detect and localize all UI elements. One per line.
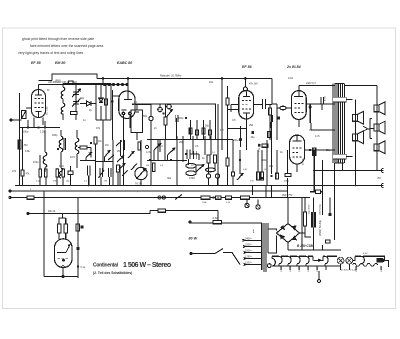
- wire eye resistor tops: [59, 214, 66, 239]
- DIN socket A pin: [246, 204, 249, 207]
- wire EL84b anode out: [305, 149, 335, 151]
- control box top: [132, 104, 216, 140]
- terminal bus AVC: [9, 190, 11, 192]
- connector circle A: [206, 174, 210, 178]
- af circle B: [167, 104, 172, 109]
- node EF86 rail: [245, 78, 247, 80]
- svg-text:0,04: 0,04: [59, 165, 64, 168]
- svg-text:EABC: EABC: [298, 265, 301, 271]
- wire tone line: [28, 211, 218, 214]
- wire EL84a anode out: [306, 104, 334, 123]
- wire switch bank verticals: [86, 140, 121, 186]
- resistor 0,3: [152, 163, 155, 172]
- component g-stopper: [269, 108, 272, 115]
- wire couple: [277, 107, 292, 109]
- IF top coil B: [61, 103, 65, 115]
- scatter labels texture: [12, 77, 331, 180]
- capacitor pair cb1: [88, 166, 91, 176]
- wire EL84a top: [298, 86, 300, 91]
- svg-text:0,1µ: 0,1µ: [36, 181, 41, 183]
- svg-text:Ratiodet. 10,7MHz: Ratiodet. 10,7MHz: [160, 74, 182, 78]
- wire cap feed: [78, 147, 91, 149]
- wire EF86 grid left: [228, 105, 247, 152]
- svg-text:40k 4k: 40k 4k: [48, 210, 56, 213]
- wire EABC80 anode to rail: [127, 79, 129, 92]
- voltage selector tap 125: [243, 258, 261, 260]
- terminal out1: [381, 168, 383, 172]
- trimmer circle above EF86: [243, 87, 247, 91]
- wire switch bank horizontals: [80, 157, 113, 162]
- svg-text:240V~: 240V~: [244, 238, 253, 241]
- wire right of box: [218, 79, 222, 186]
- terminal below psu: [318, 280, 321, 283]
- wire EF86 top to rail: [244, 79, 246, 88]
- svg-text:125V~: 125V~: [245, 256, 253, 259]
- wire transformer down legs: [310, 150, 377, 215]
- pot arrow mid2: [237, 174, 243, 181]
- wire lamps out: [353, 256, 362, 260]
- output transformer winding hatch: [333, 84, 340, 164]
- wire AM line ext: [103, 84, 128, 86]
- connector circle B: [215, 174, 219, 178]
- pilot lamp 2: [346, 257, 353, 264]
- transformer HV secondary bar: [267, 223, 269, 253]
- svg-text:4,7k: 4,7k: [315, 135, 320, 138]
- svg-text:prim: prim: [252, 229, 255, 233]
- node box sq1: [185, 117, 187, 119]
- terminal antenna input: [10, 119, 12, 121]
- heater diode arrow: [382, 259, 385, 262]
- tube EF85 cathode: [36, 112, 42, 118]
- wire EF85 pin leads: [28, 118, 45, 128]
- terminal tone: [27, 213, 29, 215]
- switch mid s7: [196, 165, 204, 173]
- node af sq: [162, 112, 164, 114]
- wire vertical v101: [100, 84, 102, 121]
- svg-text:25µ: 25µ: [326, 149, 331, 152]
- svg-text:0,3: 0,3: [159, 145, 163, 148]
- wire AF takeoff vertical: [102, 79, 104, 171]
- wire L2 leads: [44, 130, 46, 173]
- extra vertical x118: [118, 140, 125, 186]
- wire output terminals line1: [313, 170, 384, 172]
- primary winding bar: [261, 223, 263, 270]
- heater phase circle: [267, 264, 271, 268]
- svg-text:100p: 100p: [33, 161, 39, 164]
- volume pot arrow: [137, 169, 147, 179]
- extra small rect bs1: [117, 165, 120, 172]
- svg-text:(FM): (FM): [55, 79, 61, 83]
- resistor mid2: [138, 142, 141, 150]
- resistor mid r3: [276, 173, 279, 179]
- svg-text:250: 250: [249, 124, 254, 127]
- resistor 470 cathode: [313, 148, 316, 156]
- wire eye bottom tie: [44, 276, 78, 278]
- wire trimmer drops: [75, 84, 77, 121]
- capacitor row c3: [45, 169, 48, 177]
- capacitor pair mid: [187, 150, 196, 160]
- svg-text:EF 85: EF 85: [31, 61, 42, 65]
- af circle A tilde: [159, 109, 162, 110]
- IF transformer coil L3: [75, 138, 79, 154]
- bus B275: [10, 197, 305, 199]
- node mains: [190, 253, 192, 255]
- svg-text:180p: 180p: [52, 134, 58, 137]
- svg-text:1M: 1M: [98, 140, 101, 143]
- svg-text:Dr: Dr: [47, 89, 50, 92]
- wire antenna lead: [11, 119, 22, 121]
- svg-text:Continental: Continental: [93, 263, 119, 269]
- component row caps el84: [262, 144, 268, 147]
- resistor row c: [241, 196, 250, 199]
- tube EL84a cathode: [298, 120, 300, 128]
- antenna input transformer: [22, 111, 27, 119]
- svg-text:1M: 1M: [104, 181, 107, 183]
- svg-text:6,3V~: 6,3V~: [363, 253, 369, 255]
- tube EABC80 anode: [124, 91, 132, 100]
- heater winding w5: [325, 256, 337, 266]
- coupling capacitor right of EF86: [263, 99, 266, 109]
- resistor grid el84b: [268, 131, 271, 137]
- component box ra: [189, 128, 192, 134]
- terminal bus B275: [9, 196, 11, 198]
- wire output terminals line2: [308, 185, 384, 187]
- component el84 couple: [280, 106, 286, 110]
- tube EL84a envelope: [291, 91, 306, 120]
- capacitor 6800p: [80, 146, 87, 149]
- heater diode blob: [377, 258, 382, 262]
- speaker L2: [352, 131, 363, 144]
- svg-text:0,1: 0,1: [195, 145, 199, 148]
- wire mid drops2: [189, 159, 218, 186]
- wire rail jog: [39, 74, 98, 81]
- switch contact s1: [86, 153, 92, 158]
- capacitor 0,04u: [71, 112, 78, 115]
- wire mains line: [191, 253, 215, 255]
- svg-text:B 250 C350: B 250 C350: [297, 244, 314, 248]
- component box rc: [202, 128, 205, 134]
- wire box bottom: [147, 139, 233, 141]
- svg-text:EM 80: EM 80: [55, 61, 65, 65]
- left labels row: [30, 152, 267, 194]
- wire EABC80 left grid: [113, 90, 119, 140]
- wire EABC80 cathode drop: [123, 133, 125, 186]
- transformer tap box lower: [333, 154, 347, 159]
- tweeter arrow: [363, 126, 370, 131]
- capacitor row c2: [39, 169, 42, 177]
- wire vertical v96: [95, 84, 97, 121]
- tube EL84b envelope: [290, 135, 305, 164]
- IF transformer coil L1: [59, 136, 63, 152]
- svg-text:220V~: 220V~: [244, 244, 253, 247]
- scatter junction squares: [57, 142, 311, 179]
- svg-text:faint mirrored letters over th: faint mirrored letters over the scanned …: [30, 44, 103, 48]
- wire box verticals: [177, 118, 211, 140]
- wire HV to bridge: [268, 229, 277, 253]
- resistor PSU: [304, 212, 307, 226]
- resistor row 10k: [226, 196, 232, 199]
- resistor 1M band: [94, 137, 97, 144]
- node junction b: [38, 127, 40, 129]
- node ef86 sq: [251, 131, 254, 134]
- svg-text:180p: 180p: [23, 131, 29, 134]
- pot arrow af: [167, 110, 173, 118]
- bridge diode 1: [281, 226, 284, 229]
- right top rail: [299, 85, 335, 87]
- pilot lamp 1: [337, 257, 344, 264]
- wire grid return vertical: [19, 93, 21, 186]
- svg-text:100p: 100p: [178, 117, 184, 120]
- tube EABC80 envelope: [119, 91, 135, 119]
- svg-text:1M: 1M: [220, 129, 223, 132]
- electrolytic cap bars: [312, 212, 315, 228]
- switch contact s2: [105, 151, 111, 158]
- wire L1 leads: [60, 130, 62, 168]
- tube EABC80 diode leads: [124, 115, 131, 133]
- trimmer capacitor T2: [72, 99, 81, 107]
- node v222: [221, 78, 223, 80]
- svg-text:4700: 4700: [325, 95, 327, 101]
- component rm1: [207, 155, 210, 163]
- resistor 1,5M: [18, 140, 21, 149]
- node psu junction: [329, 213, 332, 216]
- svg-text:47p: 47p: [96, 127, 101, 130]
- component box rb: [196, 130, 199, 135]
- wire v218 drop: [217, 211, 219, 223]
- diode box: [131, 110, 143, 133]
- svg-text:16,5: 16,5: [70, 156, 75, 159]
- tube EF86 anode: [243, 92, 250, 97]
- heater end staircase: [376, 256, 389, 267]
- svg-text:30p: 30p: [80, 97, 85, 100]
- wire bottom connect: [96, 119, 111, 121]
- bridge diode 2: [293, 226, 296, 229]
- output transformer core: [342, 84, 344, 164]
- wire eye drop 2: [77, 198, 79, 279]
- output transformer top tie: [335, 83, 345, 85]
- svg-text:EF 86: EF 86: [242, 65, 253, 69]
- speaker R2: [374, 121, 385, 134]
- wire eye drop 1: [43, 191, 45, 277]
- node row sq: [213, 197, 215, 199]
- svg-text:80 W: 80 W: [189, 237, 198, 241]
- svg-text:EC C85: EC C85: [46, 106, 49, 115]
- svg-text:EM80: EM80: [290, 265, 292, 271]
- mains switch: [215, 249, 240, 265]
- svg-text:0,02: 0,02: [288, 77, 293, 80]
- resistor mid r1: [257, 172, 260, 180]
- node junction c: [44, 127, 46, 129]
- voltage selector tap 220: [243, 246, 262, 248]
- transformer core: [264, 223, 266, 272]
- wire fuse line: [190, 222, 262, 224]
- extra switch arrows right: [108, 141, 128, 177]
- svg-text:50µ 350V: 50µ 350V: [309, 204, 311, 214]
- bridge diode 4: [293, 237, 297, 240]
- svg-text:(350V) 50+50µ: (350V) 50+50µ: [319, 219, 322, 236]
- wire diode row: [80, 103, 96, 105]
- tube EL84b cathode: [296, 164, 298, 172]
- component tone series: [158, 209, 166, 212]
- node eye center: [63, 259, 65, 261]
- wire secondary to speakers lower: [346, 156, 352, 158]
- wire top connect: [63, 83, 111, 85]
- svg-text:150V~: 150V~: [245, 250, 253, 253]
- resistor mid r2: [261, 172, 264, 180]
- heater winding w2: [288, 256, 297, 266]
- tube EF86 envelope: [239, 91, 254, 120]
- pot arrow p2: [108, 168, 111, 177]
- wire mid horizontals: [147, 140, 199, 161]
- svg-text:B-TON: B-TON: [303, 158, 305, 165]
- bus ground main: [15, 185, 308, 187]
- wire EF85 grid to input transformer: [26, 107, 32, 109]
- svg-text:1M: 1M: [105, 144, 108, 147]
- bus junction dots: [22, 185, 356, 212]
- capacitor on v106: [105, 99, 108, 105]
- wire EF86 cathode drop: [245, 119, 247, 150]
- svg-text:very light grey traces of text: very light grey traces of text and rulin…: [18, 51, 84, 55]
- capacitor row c4: [56, 169, 59, 177]
- wire speaker spine right: [376, 86, 378, 166]
- switch mid s5: [154, 144, 161, 151]
- component box rd: [209, 130, 212, 135]
- wire IF top leads: [62, 84, 64, 121]
- node row above EABC80: [104, 84, 129, 86]
- feedback line: [311, 123, 335, 130]
- wire v227: [227, 86, 229, 110]
- tube EL84a grid dashes: [295, 104, 304, 113]
- capacitor EF86 left: [226, 98, 229, 105]
- ghost bleedthrough text: [18, 37, 103, 55]
- node eye bottom: [62, 276, 64, 278]
- component small psu: [326, 240, 331, 243]
- node eye right: [77, 265, 79, 267]
- heater wire to w5: [323, 255, 325, 257]
- oval can C: [206, 168, 216, 172]
- switch mid s6: [168, 148, 176, 155]
- heater winding w1: [279, 256, 288, 266]
- fuse 0,8A: [213, 220, 222, 223]
- heater winding w6: [361, 256, 376, 264]
- heater bottom rail: [272, 265, 341, 267]
- oval can B: [186, 171, 196, 176]
- node EF86 right sq: [277, 117, 280, 120]
- svg-text:1M: 1M: [146, 165, 149, 167]
- extra switch diagonals mid: [128, 152, 137, 171]
- speaker L1: [352, 112, 363, 125]
- wire bridge plus up: [287, 198, 289, 224]
- bridge diode 3: [281, 235, 284, 238]
- switch on bus row: [175, 195, 182, 200]
- svg-text:EABC 80: EABC 80: [117, 61, 132, 65]
- transformer tap box upper: [333, 97, 347, 102]
- svg-text:40µ: 40µ: [251, 136, 256, 139]
- wire AM top rail: [39, 84, 104, 86]
- tube EABC80 grid dashes: [122, 105, 135, 111]
- tube EF86 grid dashes: [242, 101, 251, 110]
- svg-text:2x EL84: 2x EL84: [286, 65, 301, 69]
- svg-text:0,1µ: 0,1µ: [81, 266, 86, 269]
- wire secondary to speakers upper: [346, 99, 352, 101]
- tube EL84b anode: [293, 135, 302, 141]
- heater drop ticks: [281, 264, 381, 270]
- wire EF86 anode out: [254, 79, 272, 105]
- fuse on bus: [27, 196, 34, 199]
- resistor mid 6800: [285, 174, 291, 177]
- svg-text:220V 6,3: 220V 6,3: [305, 82, 316, 85]
- DIN socket B: [256, 205, 260, 209]
- speaker R1: [374, 102, 385, 115]
- wire box leads: [132, 104, 176, 140]
- tube EF85 grid dashes: [35, 99, 44, 108]
- tube EF85 envelope: [32, 90, 46, 118]
- wire eye pins: [62, 268, 64, 277]
- voltage selector tap 240: [242, 239, 261, 241]
- svg-text:EM84: EM84: [381, 265, 383, 271]
- node anode a: [309, 106, 311, 108]
- wire junction row: [20, 127, 61, 129]
- svg-text:47n 1kV: 47n 1kV: [249, 83, 258, 86]
- DIN socket A: [245, 203, 249, 207]
- af circle A: [158, 107, 163, 112]
- svg-text:4,7k: 4,7k: [146, 151, 151, 154]
- svg-text:110V~: 110V~: [245, 262, 253, 265]
- tube EF86 cathode: [243, 113, 250, 119]
- circle mid small: [145, 145, 148, 148]
- tube EL84b grid dashes: [293, 148, 302, 157]
- resistor row b: [216, 196, 222, 199]
- magic eye grid resistor 2: [64, 224, 67, 233]
- svg-text:(2. Teil des Schaltbildes): (2. Teil des Schaltbildes): [93, 271, 132, 275]
- speaker R3: [374, 141, 385, 154]
- wire vertical v111: [110, 84, 112, 121]
- svg-text:1 506 W – Stereo: 1 506 W – Stereo: [123, 262, 171, 269]
- wire v270 drop: [270, 104, 277, 140]
- heater winding w4: [306, 256, 313, 266]
- resistor row 150k: [201, 196, 210, 199]
- diode D2: [99, 98, 103, 102]
- tube EM80 cathode arrow: [61, 265, 65, 268]
- wire secondary top to speaker col: [344, 85, 377, 87]
- node EABC80 rail: [127, 78, 129, 80]
- wire PSU links: [288, 198, 341, 251]
- terminal out2: [381, 183, 383, 187]
- IF top coil A: [61, 87, 65, 99]
- magic eye grid resistor 1: [57, 224, 60, 233]
- svg-text:ghost print bleed through from: ghost print bleed through from reverse s…: [22, 37, 94, 41]
- capacitor pair box: [175, 115, 178, 122]
- wire speaker spine left: [354, 100, 356, 166]
- wire det leads: [150, 104, 152, 186]
- heater winding w3: [297, 256, 306, 266]
- bus AVC: [10, 190, 288, 192]
- tube EF85 anode: [35, 90, 42, 96]
- transformer heater secondary hook: [272, 256, 275, 266]
- heater zigzag 63V: [353, 263, 378, 266]
- tube EM80 envelope: [55, 239, 73, 268]
- DIN socket B pin: [257, 206, 260, 209]
- capacitor row c5: [62, 169, 65, 177]
- component eye right cap2: [81, 226, 84, 229]
- capacitor on AM line: [69, 81, 74, 84]
- svg-text:0,5: 0,5: [232, 119, 236, 122]
- IF transformer coil L2: [43, 152, 47, 168]
- capacitor 4700 pair: [321, 97, 324, 110]
- wire EABC80 right out: [135, 105, 151, 113]
- wire speaker R2 bracket: [370, 119, 374, 139]
- svg-text:50p: 50p: [205, 125, 210, 128]
